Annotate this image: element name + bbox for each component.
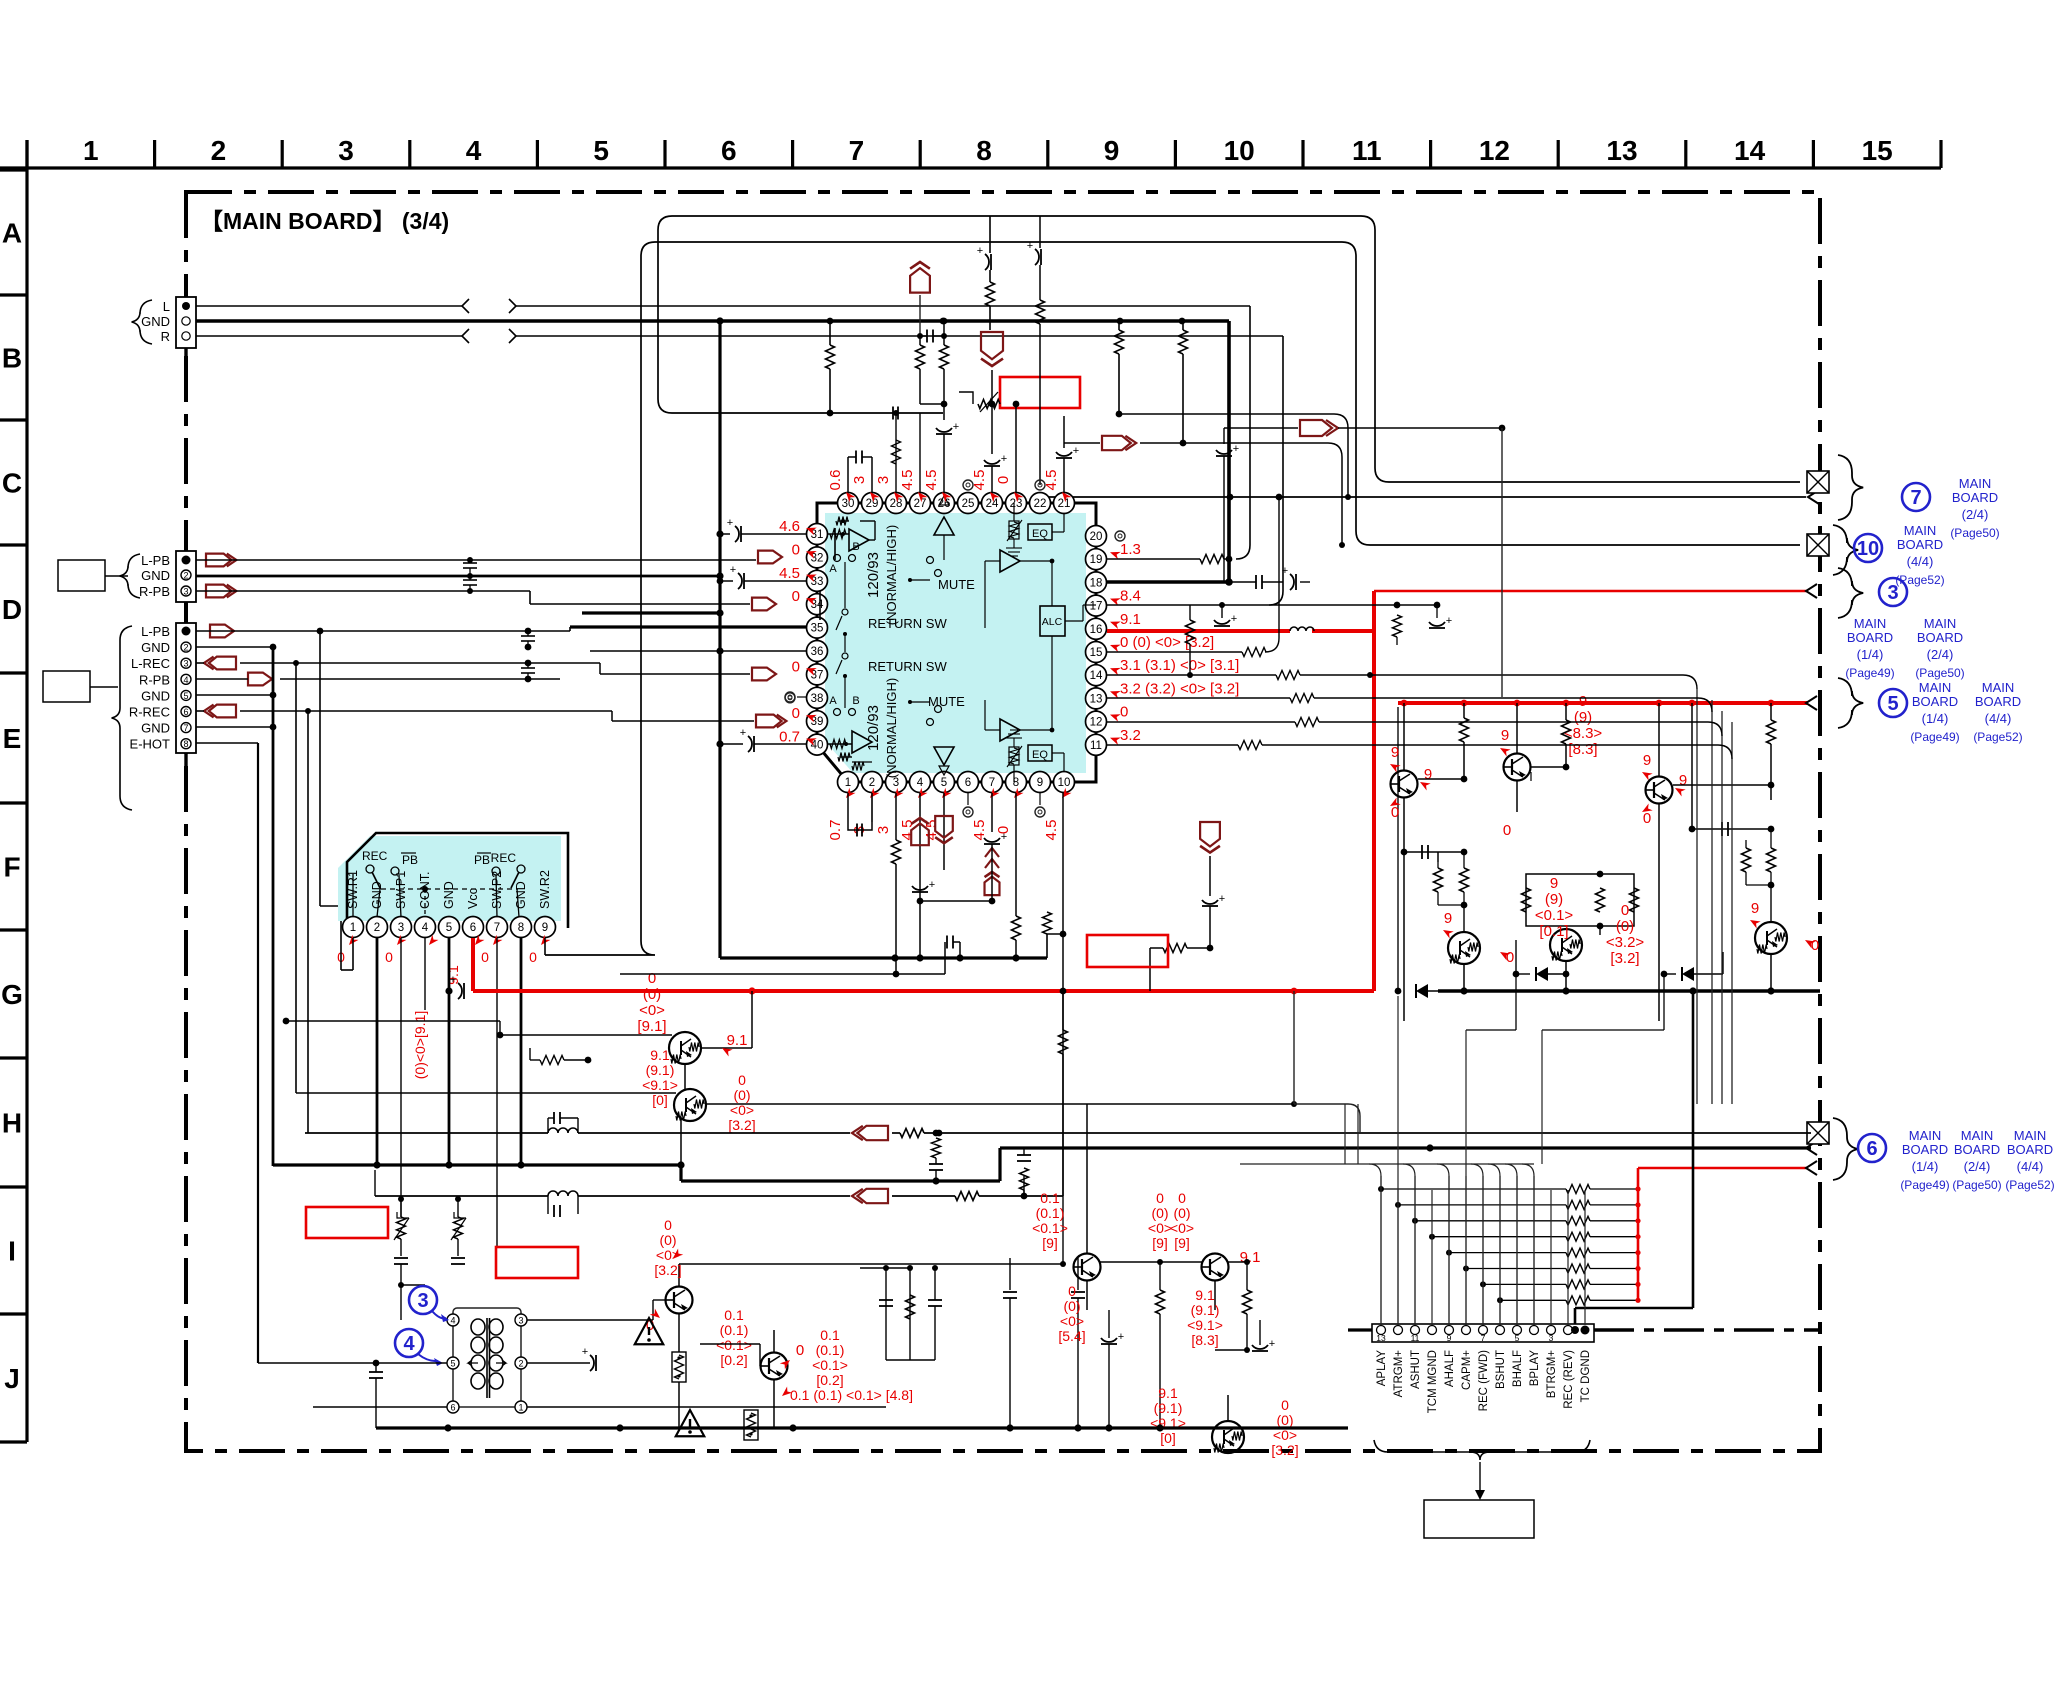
svg-text:RETURN SW: RETURN SW: [868, 616, 947, 631]
Q6 red labels: [1748, 900, 1819, 954]
svg-text:<0>: <0>: [1060, 1313, 1084, 1329]
svg-text:(0): (0): [643, 986, 661, 1003]
svg-text:8: 8: [976, 135, 992, 166]
CN4 rotated pin labels: [1376, 1350, 1592, 1414]
svg-text:[3.2]: [3.2]: [1610, 950, 1639, 967]
wires CN2 to IC area: [196, 557, 756, 604]
variable resistor feeding red box: [959, 392, 1019, 412]
dark red arrow pin37: [600, 663, 776, 680]
Q10 red labels: [779, 1327, 913, 1403]
svg-text:0: 0: [1281, 1397, 1289, 1413]
thick bus under IC: [720, 912, 1063, 962]
svg-text:9.1: 9.1: [1240, 1249, 1261, 1266]
svg-text:3.2 (3.2) <0> [3.2]: 3.2 (3.2) <0> [3.2]: [1120, 680, 1239, 697]
svg-text:5: 5: [183, 691, 188, 701]
svg-text:(2/4): (2/4): [1962, 507, 1989, 522]
red power wire to transistor bank: [1398, 700, 1808, 991]
svg-text:(1/4): (1/4): [1922, 711, 1949, 726]
svg-text:(4/4): (4/4): [2017, 1159, 2044, 1174]
svg-text:16: 16: [1090, 624, 1103, 636]
svg-text:1.3: 1.3: [1120, 541, 1141, 558]
svg-text:6: 6: [965, 777, 971, 789]
svg-text:7: 7: [494, 922, 500, 934]
svg-text:GND: GND: [141, 568, 170, 583]
svg-text:12: 12: [1090, 717, 1103, 729]
svg-text:(0): (0): [1616, 918, 1634, 935]
op-amp IC U1 body: [817, 503, 1096, 782]
svg-text:13: 13: [1606, 135, 1637, 166]
resistor right bank 3: [1673, 703, 1776, 800]
U1 internal return switches: [836, 592, 848, 688]
CN4 brace and ref box: [1374, 1440, 1590, 1538]
wire y443 right segment: [1064, 436, 1345, 548]
Q11-Q12 collector link: [1100, 1259, 1252, 1428]
transistor Q2: [1504, 703, 1532, 812]
dark red arrow pin39: [612, 711, 786, 727]
svg-text:B: B: [2, 343, 22, 374]
op-amp U1 left pins 31-40: [807, 524, 828, 756]
svg-text:REC (REV): REC (REV): [1563, 1350, 1575, 1409]
U1 internal label 120/93 NORMAL/HIGH lower: [865, 678, 899, 778]
connector CN3 8-pin: [112, 623, 196, 810]
svg-text:2: 2: [183, 643, 188, 653]
svg-text:14: 14: [1734, 135, 1766, 166]
svg-text:<0.1>: <0.1>: [716, 1337, 752, 1353]
svg-text:(9): (9): [1574, 709, 1592, 726]
Q4 red labels: [1441, 910, 1514, 966]
svg-text:A: A: [829, 563, 837, 575]
svg-text:(9.1): (9.1): [1154, 1400, 1183, 1416]
svg-text:0.1: 0.1: [724, 1307, 744, 1323]
svg-text:6: 6: [1866, 1138, 1877, 1160]
brace and blue circle 7: [1838, 455, 2000, 540]
svg-text:9.1: 9.1: [1195, 1287, 1215, 1303]
svg-text:22: 22: [1034, 498, 1047, 510]
svg-text:(0.1): (0.1): [816, 1342, 845, 1358]
trimmer resistor 1: [394, 1196, 409, 1288]
svg-text:38: 38: [811, 693, 824, 705]
svg-text:0.7: 0.7: [779, 729, 800, 746]
connector CN4 13-pin: [1372, 1324, 1594, 1343]
vertical line pin4 region down: [1059, 988, 1068, 1206]
svg-text:B: B: [852, 541, 859, 553]
U1 pin1-2 bottom components: [858, 793, 873, 822]
brace and blue circle 3: [1838, 568, 1907, 618]
svg-text:+: +: [953, 421, 959, 433]
svg-text:36: 36: [811, 646, 824, 658]
svg-text:EQ: EQ: [1032, 528, 1048, 540]
svg-text:[9]: [9]: [1174, 1235, 1190, 1251]
transistor Q1: [1391, 703, 1418, 1021]
U1 internal op-amp triangle upper-left: [827, 517, 875, 552]
svg-text:4.5: 4.5: [899, 470, 916, 491]
svg-text:30: 30: [842, 498, 855, 510]
svg-text:+: +: [450, 974, 456, 986]
svg-text:<9.1>: <9.1>: [642, 1077, 678, 1093]
svg-text:PB: PB: [402, 853, 418, 867]
svg-text:ASHUT: ASHUT: [1410, 1350, 1422, 1389]
svg-text:Vcc: Vcc: [466, 888, 480, 909]
svg-text:4: 4: [403, 1333, 415, 1355]
svg-text:MAIN: MAIN: [1959, 476, 1992, 491]
svg-text:15: 15: [1090, 647, 1103, 659]
ecap at Q11: [1252, 1320, 1275, 1428]
svg-text:GND: GND: [141, 688, 170, 703]
thick wires D-row to IC: [570, 613, 806, 651]
bottom center transistor Q12: [1202, 1104, 1229, 1310]
U1 internal label 120/93 NORMAL/HIGH upper: [865, 525, 899, 625]
svg-text:REC (FWD): REC (FWD): [1478, 1350, 1490, 1411]
pin31 input electrolytic: [720, 517, 806, 542]
svg-text:1: 1: [350, 922, 356, 934]
svg-text:0: 0: [664, 1217, 672, 1233]
dark red arrow up above IC: [910, 262, 930, 336]
diodes on ground bus: [1395, 940, 1771, 998]
svg-text:[3.2]: [3.2]: [1271, 1442, 1298, 1458]
svg-text:(9.1): (9.1): [1191, 1302, 1220, 1318]
svg-text:7: 7: [183, 723, 188, 733]
svg-text:B: B: [852, 695, 859, 707]
svg-text:9: 9: [1679, 772, 1687, 789]
svg-text:(9): (9): [1545, 891, 1563, 908]
svg-text:GND: GND: [370, 881, 384, 909]
svg-text:24: 24: [986, 498, 999, 510]
svg-text:9: 9: [1037, 777, 1043, 789]
pin28 riser: [892, 410, 901, 493]
transistor Q3: [1646, 703, 1673, 1021]
center resistor block Q2: [1522, 767, 1639, 935]
svg-text:10: 10: [1058, 777, 1071, 789]
svg-text:0: 0: [1643, 810, 1651, 827]
svg-text:(0): (0): [1151, 1205, 1168, 1221]
svg-text:REC: REC: [491, 851, 517, 865]
wire L-PB D-row vertical: [820, 528, 835, 620]
boxed resistor 2: [744, 1410, 758, 1440]
svg-text:9.1: 9.1: [1120, 611, 1141, 628]
svg-text:9.1: 9.1: [1158, 1385, 1178, 1401]
svg-text:(2/4): (2/4): [1927, 647, 1954, 662]
svg-text:3: 3: [875, 826, 892, 834]
svg-text:C: C: [2, 468, 22, 499]
svg-text:(1/4): (1/4): [1912, 1159, 1939, 1174]
svg-text:3.1 (3.1) <0> [3.1]: 3.1 (3.1) <0> [3.1]: [1120, 657, 1239, 674]
blue callout 3: [409, 1286, 449, 1322]
svg-text:+: +: [582, 1346, 588, 1358]
svg-text:+: +: [1027, 240, 1033, 252]
svg-text:R-PB: R-PB: [139, 584, 170, 599]
svg-text:1: 1: [83, 135, 99, 166]
Q13 red labels: [1150, 1385, 1299, 1458]
svg-text:1: 1: [518, 1403, 523, 1413]
wire y414 right segment: [1119, 414, 1351, 500]
svg-text:(Page52): (Page52): [1895, 573, 1944, 587]
empty ref box left of CN2: [58, 560, 105, 591]
svg-text:<0.1>: <0.1>: [1535, 907, 1574, 924]
svg-text:3: 3: [183, 659, 188, 669]
svg-text:9: 9: [1643, 752, 1651, 769]
arrowheads at right border: [1806, 490, 1819, 1175]
CN4 feed verticals: [1381, 1176, 1585, 1325]
svg-text:3: 3: [518, 1316, 523, 1326]
svg-text:GND: GND: [514, 881, 528, 909]
wire pin4 chain down: [912, 879, 995, 904]
svg-text:0: 0: [1391, 804, 1399, 821]
svg-text:[0.2]: [0.2]: [816, 1372, 843, 1388]
wire loop inner: [545, 242, 1800, 955]
thick ground bus under transistor bank: [1438, 987, 1820, 994]
svg-text:F: F: [3, 852, 20, 883]
svg-text:CAPM+: CAPM+: [1461, 1350, 1473, 1390]
svg-text:[0]: [0]: [652, 1092, 668, 1108]
resistor ladder to red rail: [1378, 1185, 1641, 1305]
wire bus H1 with inductor: [305, 1105, 1811, 1140]
svg-text:L-PB: L-PB: [141, 624, 170, 639]
digital transistor Q7: [669, 987, 756, 1064]
svg-text:0: 0: [792, 658, 800, 675]
svg-text:MAIN: MAIN: [1919, 680, 1952, 695]
Q11 red labels: [1032, 1190, 1172, 1344]
svg-text:MAIN: MAIN: [1854, 616, 1887, 631]
op-amp U1 bottom pins 1-10: [838, 772, 1075, 793]
svg-text:ATRGM+: ATRGM+: [1393, 1350, 1405, 1398]
svg-text:4: 4: [450, 1316, 455, 1326]
svg-text:4.5: 4.5: [779, 565, 800, 582]
Q3 red labels: [1640, 752, 1687, 827]
svg-text:5: 5: [450, 1359, 455, 1369]
wire loop outer to xbox 7: [658, 216, 1800, 482]
svg-text:MAIN: MAIN: [1982, 680, 2015, 695]
svg-text:G: G: [1, 979, 23, 1010]
svg-text:7: 7: [1910, 487, 1921, 509]
svg-text:(0): (0): [733, 1087, 750, 1103]
svg-text:3: 3: [1549, 1333, 1554, 1343]
svg-text:4: 4: [466, 135, 482, 166]
U1 internal ALC block: [1040, 578, 1096, 700]
vertical trunk wires from CN3: [258, 631, 676, 1363]
wires CN3 fanout: [196, 627, 612, 743]
svg-text:9.1: 9.1: [650, 1047, 670, 1063]
svg-text:9: 9: [1579, 693, 1587, 710]
svg-text:0: 0: [529, 949, 537, 965]
trimmer resistor 2: [451, 1196, 466, 1285]
svg-text:[9.1]: [9.1]: [637, 1018, 666, 1035]
svg-text:<0.1>: <0.1>: [1032, 1220, 1068, 1236]
bottom transistor Q13: [1212, 1395, 1244, 1453]
U1 internal variable EQ resistor lower: [1006, 730, 1022, 782]
svg-text:4: 4: [917, 777, 924, 789]
svg-text:MUTE: MUTE: [938, 577, 975, 592]
svg-text:(2/4): (2/4): [1964, 1159, 1991, 1174]
U1 internal EQ block upper: [1028, 514, 1064, 540]
svg-text:7: 7: [1481, 1333, 1486, 1343]
brace and blue circle 5: [1838, 678, 2023, 744]
svg-text:11: 11: [1411, 1333, 1420, 1343]
svg-text:0.7: 0.7: [827, 820, 844, 841]
svg-text:PB: PB: [474, 853, 490, 867]
svg-text:BOARD: BOARD: [1952, 490, 1998, 505]
wire pin3 riser: [892, 793, 901, 974]
svg-text:19: 19: [1090, 554, 1103, 566]
red service box G row: [1087, 935, 1168, 967]
svg-text:5: 5: [446, 922, 452, 934]
svg-text:27: 27: [914, 498, 927, 510]
svg-text:4: 4: [422, 922, 429, 934]
svg-text:3: 3: [183, 587, 188, 597]
svg-text:(Page50): (Page50): [1915, 666, 1964, 680]
caps at pin17-19 network: [1186, 602, 1371, 675]
svg-text:(NORMAL/HIGH): (NORMAL/HIGH): [884, 678, 899, 778]
svg-text:0: 0: [1506, 949, 1514, 966]
wire pin22 cap leads: [1027, 216, 1045, 485]
svg-text:6: 6: [721, 135, 737, 166]
svg-text:0 (0) <0> [3.2]: 0 (0) <0> [3.2]: [1120, 634, 1214, 651]
svg-text:6: 6: [450, 1403, 455, 1413]
svg-text:3: 3: [398, 922, 404, 934]
svg-text:A: A: [829, 695, 837, 707]
svg-text:AHALF: AHALF: [1444, 1350, 1456, 1387]
red power wire 9.1V from S1 Vcc: [473, 591, 1808, 994]
svg-text:17: 17: [1090, 601, 1103, 613]
svg-text:[8.3]: [8.3]: [1191, 1332, 1218, 1348]
svg-text:BOARD: BOARD: [1975, 694, 2021, 709]
capacitor above pin21: [1056, 416, 1239, 582]
svg-text:4.6: 4.6: [779, 518, 800, 535]
svg-text:H: H: [2, 1108, 22, 1139]
svg-text:E: E: [3, 723, 22, 754]
svg-text:0: 0: [1068, 1283, 1076, 1299]
svg-text:+: +: [1118, 1331, 1124, 1343]
thick vertical trunk x=720: [716, 317, 723, 958]
digital transistor Q5: [1550, 929, 1582, 991]
U1 internal A/B switch upper: [829, 541, 859, 592]
svg-text:R-REC: R-REC: [129, 705, 170, 720]
svg-text:+: +: [1282, 565, 1288, 577]
svg-text:4.5: 4.5: [971, 470, 988, 491]
blue callout 4: [395, 1329, 443, 1366]
U1 internal op-amp triangle lower-left: [827, 731, 872, 771]
svg-text:9: 9: [1104, 135, 1120, 166]
brace and blue circle 6: [1833, 1118, 2055, 1192]
transistor Q10: [742, 1330, 788, 1428]
svg-text:[3.2]: [3.2]: [728, 1117, 755, 1133]
svg-text:25: 25: [962, 498, 975, 510]
U1 red voltage labels bottom pins: [827, 788, 1071, 841]
transformer output wires: [527, 1300, 886, 1407]
base network Q1 caps: [1401, 845, 1469, 932]
svg-text:(Page49): (Page49): [1845, 666, 1894, 680]
inductor on 9.1V line: [1290, 627, 1314, 631]
svg-text:R: R: [161, 329, 170, 344]
svg-text:9: 9: [1550, 875, 1558, 892]
center capacitor bank: [860, 1255, 942, 1428]
svg-text:23: 23: [1010, 498, 1023, 510]
svg-text:120/93: 120/93: [865, 552, 882, 598]
wire Q7 base feed: [283, 1018, 672, 1065]
svg-text:2: 2: [518, 1359, 523, 1369]
wire GND bus (thick): [196, 318, 1229, 582]
svg-text:<9.1>: <9.1>: [1187, 1317, 1223, 1333]
wire horizontal to arrow input 10: [1040, 494, 1806, 501]
wire pin5 chain down: [620, 936, 960, 978]
digital transistor Q4: [1448, 932, 1480, 991]
Q9 collector wire: [679, 1196, 1066, 1267]
digital transistor Q8: [674, 1064, 1294, 1165]
main board dash-dot border: [186, 192, 1820, 1451]
svg-text:BOARD: BOARD: [2007, 1142, 2053, 1157]
svg-text:9: 9: [1501, 727, 1509, 744]
svg-text:BOARD: BOARD: [1954, 1142, 2000, 1157]
svg-text:SW.P1: SW.P1: [394, 871, 408, 909]
svg-text:0: 0: [1811, 937, 1819, 954]
U1 internal mute amp lower: [908, 700, 954, 775]
svg-text:9: 9: [1444, 910, 1452, 927]
svg-text:0.1 (0.1) <0.1> [4.8]: 0.1 (0.1) <0.1> [4.8]: [790, 1387, 913, 1403]
svg-text:18: 18: [1090, 577, 1103, 589]
svg-text:3.2: 3.2: [1120, 727, 1141, 744]
wire junction pin23 riser: [1015, 404, 1017, 493]
U1 internal RETURN SW labels: [868, 616, 947, 674]
svg-text:BOARD: BOARD: [1847, 630, 1893, 645]
wire gray long from H1 to border: [1811, 1132, 1813, 1134]
svg-text:【MAIN BOARD】 (3/4): 【MAIN BOARD】 (3/4): [200, 208, 449, 234]
svg-text:5: 5: [593, 135, 609, 166]
svg-text:[9]: [9]: [1042, 1235, 1058, 1251]
CN4 feed bends: [1369, 1164, 1534, 1325]
transistor Q9: [666, 1264, 693, 1428]
svg-text:13: 13: [1376, 1333, 1386, 1343]
svg-text:R-PB: R-PB: [139, 672, 170, 687]
svg-text:(Page52): (Page52): [1973, 730, 2022, 744]
svg-text:8.4: 8.4: [1120, 588, 1141, 605]
transformer input wires: [258, 1160, 447, 1428]
svg-text:0: 0: [648, 970, 656, 987]
svg-text:12: 12: [1479, 135, 1510, 166]
switch block S1 red pin voltages: [337, 935, 550, 1079]
svg-text:MAIN: MAIN: [1904, 523, 1937, 538]
red service box above IC: [1000, 377, 1080, 408]
svg-text:2: 2: [374, 922, 380, 934]
svg-text:0: 0: [792, 705, 800, 722]
wire L playback line: [196, 299, 1250, 559]
svg-text:[0.1]: [0.1]: [1539, 923, 1568, 940]
U1 internal amp triangle right upper: [944, 550, 1054, 628]
svg-text:8: 8: [518, 922, 524, 934]
svg-text:14: 14: [1090, 670, 1103, 682]
red wire branch capacitor at S1: [445, 974, 464, 999]
U1 red voltage labels right pins: [1109, 531, 1240, 745]
svg-text:[0]: [0]: [1160, 1430, 1176, 1446]
U1 right pin wires with resistors: [1107, 497, 1732, 759]
svg-text:0.1: 0.1: [1040, 1190, 1060, 1206]
svg-text:<0>: <0>: [1170, 1220, 1194, 1236]
svg-text:[0.2]: [0.2]: [720, 1352, 747, 1368]
Q10 base wire: [700, 1344, 762, 1366]
U1 internal A/B switch lower: [829, 688, 859, 716]
red wire to bottom connector region: [1638, 1168, 1808, 1301]
svg-text:4: 4: [183, 675, 188, 685]
svg-text:0.1: 0.1: [820, 1327, 840, 1343]
svg-text:TCM MGND: TCM MGND: [1427, 1350, 1439, 1413]
svg-text:9.1: 9.1: [727, 1032, 748, 1049]
svg-text:2: 2: [183, 571, 188, 581]
wire trimmer junction: [401, 1010, 425, 1320]
U1 internal variable EQ resistor upper: [1006, 503, 1022, 556]
svg-text:9: 9: [1751, 900, 1759, 917]
svg-text:3: 3: [338, 135, 354, 166]
bottom center transistor Q11: [1074, 1104, 1101, 1310]
svg-text:+: +: [977, 245, 983, 257]
svg-text:L-PB: L-PB: [141, 553, 170, 568]
